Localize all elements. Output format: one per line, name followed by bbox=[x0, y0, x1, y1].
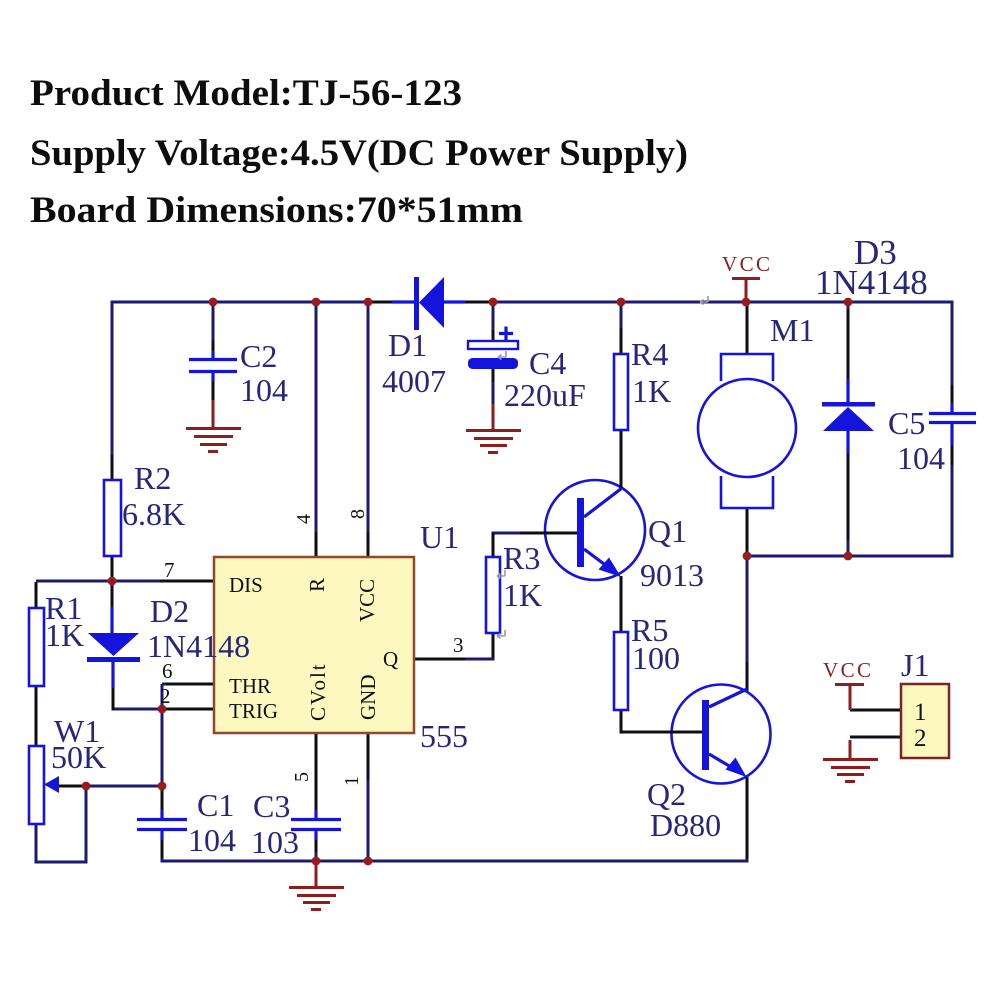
svg-text:1K: 1K bbox=[503, 577, 542, 613]
svg-text:6.8K: 6.8K bbox=[122, 496, 185, 532]
svg-text:DIS: DIS bbox=[229, 573, 263, 597]
svg-text:1K: 1K bbox=[632, 373, 671, 409]
svg-text:D1: D1 bbox=[388, 327, 427, 363]
svg-text:R3: R3 bbox=[503, 540, 540, 576]
svg-text:TRIG: TRIG bbox=[229, 699, 278, 723]
svg-text:2: 2 bbox=[914, 725, 927, 752]
svg-text:C2: C2 bbox=[240, 338, 277, 374]
svg-text:R4: R4 bbox=[631, 336, 668, 372]
svg-text:GND: GND bbox=[356, 675, 380, 721]
svg-text:2: 2 bbox=[160, 684, 171, 708]
svg-text:103: 103 bbox=[251, 824, 299, 860]
svg-text:C1: C1 bbox=[197, 787, 234, 823]
svg-text:104: 104 bbox=[188, 822, 236, 858]
svg-text:Q: Q bbox=[383, 647, 398, 671]
svg-text:U1: U1 bbox=[420, 519, 459, 555]
svg-text:R: R bbox=[305, 578, 329, 592]
svg-text:Q1: Q1 bbox=[648, 513, 687, 549]
svg-text:7: 7 bbox=[164, 558, 175, 582]
svg-text:4007: 4007 bbox=[382, 363, 446, 399]
svg-text:CVolt: CVolt bbox=[306, 662, 330, 721]
svg-text:D880: D880 bbox=[650, 807, 721, 843]
svg-text:C4: C4 bbox=[529, 345, 566, 381]
svg-text:104: 104 bbox=[240, 372, 288, 408]
svg-text:C3: C3 bbox=[253, 788, 290, 824]
svg-text:50K: 50K bbox=[51, 739, 106, 775]
svg-text:Supply Voltage:4.5V(DC Power S: Supply Voltage:4.5V(DC Power Supply) bbox=[30, 133, 688, 174]
svg-text:D2: D2 bbox=[150, 593, 189, 629]
svg-text:VCC: VCC bbox=[355, 579, 379, 622]
svg-text:5: 5 bbox=[291, 772, 313, 782]
svg-text:4: 4 bbox=[293, 514, 315, 524]
svg-text:M1: M1 bbox=[770, 312, 814, 348]
svg-text:104: 104 bbox=[897, 440, 945, 476]
svg-text:Product Model:TJ-56-123: Product Model:TJ-56-123 bbox=[30, 73, 462, 114]
svg-text:3: 3 bbox=[453, 633, 464, 657]
svg-text:J1: J1 bbox=[901, 647, 929, 683]
svg-text:1: 1 bbox=[914, 699, 927, 726]
svg-text:6: 6 bbox=[162, 659, 173, 683]
svg-text:R2: R2 bbox=[134, 460, 171, 496]
svg-text:8: 8 bbox=[347, 509, 369, 519]
svg-text:1: 1 bbox=[341, 776, 363, 786]
svg-text:THR: THR bbox=[229, 674, 271, 698]
svg-text:1N4148: 1N4148 bbox=[815, 263, 928, 302]
svg-text:220uF: 220uF bbox=[504, 377, 586, 413]
svg-text:100: 100 bbox=[632, 640, 680, 676]
svg-text:Board Dimensions:70*51mm: Board Dimensions:70*51mm bbox=[30, 190, 523, 231]
svg-text:9013: 9013 bbox=[640, 557, 704, 593]
svg-text:VCC: VCC bbox=[722, 252, 772, 276]
svg-text:555: 555 bbox=[420, 718, 468, 754]
svg-text:VCC: VCC bbox=[823, 658, 873, 682]
svg-text:C5: C5 bbox=[888, 405, 925, 441]
svg-text:1K: 1K bbox=[45, 617, 84, 653]
